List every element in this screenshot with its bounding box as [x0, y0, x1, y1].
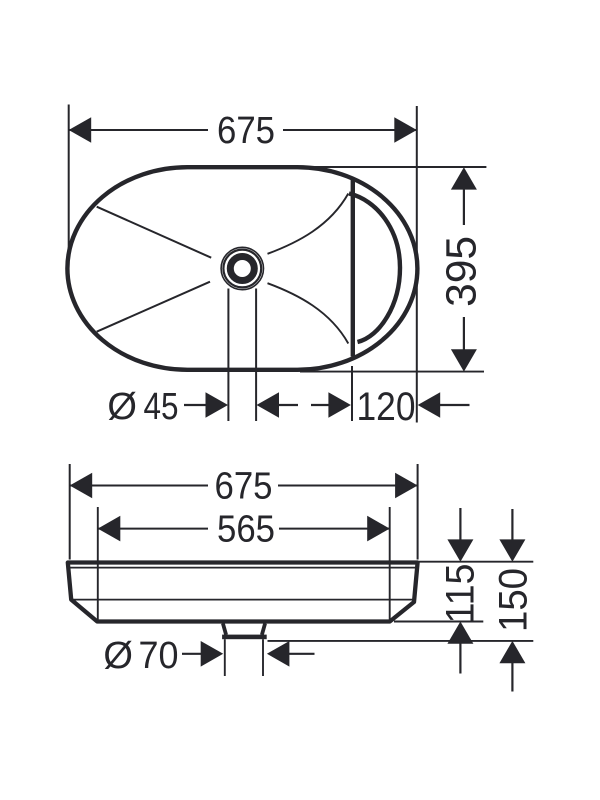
elevation: dimension line 565	[98, 528, 208, 530]
divider extension to dim area	[351, 366, 353, 421]
elevation: extension line right (565)	[389, 507, 391, 621]
elevation: extension line right (675)	[417, 464, 419, 560]
395 extension line top	[300, 166, 486, 168]
svg-text:675: 675	[217, 110, 275, 152]
elevation: extension line left (675)	[69, 464, 71, 560]
drain pipe right	[262, 639, 264, 676]
svg-text:675: 675	[215, 466, 273, 508]
waist line	[71, 599, 414, 601]
drain middle circle	[223, 250, 261, 288]
svg-text:150: 150	[491, 568, 535, 632]
label 115 (rotated)	[439, 564, 483, 624]
drain flange left slant	[223, 623, 226, 634]
crease curve lower right	[268, 283, 349, 343]
crease line lower left	[97, 282, 210, 332]
svg-text:Ø: Ø	[107, 386, 137, 428]
basin deck divider line	[351, 179, 355, 357]
svg-text:115: 115	[439, 564, 483, 624]
drain extension line left (d45)	[227, 289, 229, 422]
drain extension line right (d45)	[255, 289, 257, 422]
d45 arrow left (points right)	[184, 404, 207, 406]
120 arrow right (points left)	[418, 392, 441, 418]
drain ring (filled donut)	[230, 257, 254, 281]
label 395 (rotated)	[438, 236, 486, 307]
150 arrow down	[511, 509, 513, 541]
395 arrow up	[451, 167, 477, 189]
drain flange right slant	[262, 623, 265, 634]
drain flange bar	[222, 635, 267, 640]
top view: extension line left (675)	[68, 105, 70, 251]
crease line upper left	[97, 207, 212, 258]
elevation: extension line left (565)	[97, 507, 99, 621]
svg-text:395: 395	[438, 236, 486, 307]
rim extension line right	[419, 561, 533, 563]
svg-text:Ø: Ø	[103, 635, 133, 677]
d45 arrow right (points left)	[257, 392, 280, 418]
top view: arrowhead 675 right	[394, 117, 417, 143]
120 arrow left (points right)	[311, 404, 330, 406]
basin outer outline (stadium)	[67, 167, 417, 370]
drain pipe left	[224, 639, 226, 676]
svg-text:45: 45	[144, 386, 179, 428]
bottom extension line right	[394, 621, 483, 623]
top view: extension line right (675 / 120)	[416, 106, 418, 423]
rim inner edge line	[69, 567, 417, 569]
elevation: arrowhead 565 left	[98, 516, 121, 542]
150 arrow up	[499, 641, 525, 663]
svg-text:120: 120	[357, 385, 416, 429]
top view: dimension line 675	[69, 129, 208, 131]
d70 arrow right (points left)	[267, 641, 290, 667]
elevation: arrowhead 565 right	[367, 516, 390, 542]
d70 arrow left (points right)	[182, 653, 202, 655]
svg-text:565: 565	[217, 509, 275, 551]
inner bowl arc right	[349, 194, 400, 343]
drain outer circle	[221, 247, 263, 289]
label 150 (rotated)	[491, 568, 535, 632]
svg-text:70: 70	[139, 635, 179, 677]
crease curve upper right	[268, 194, 349, 254]
top view: arrowhead 675 left	[69, 117, 92, 143]
elevation: dimension line 675	[70, 485, 208, 487]
395 extension line bottom	[300, 371, 484, 373]
395 arrow down	[463, 317, 465, 351]
115 arrow up	[447, 622, 473, 644]
115 arrow down	[459, 508, 461, 541]
flange extension line right	[268, 640, 534, 642]
elevation: arrowhead 675 left	[70, 473, 93, 499]
basin profile outline	[68, 563, 418, 622]
elevation: arrowhead 675 right	[395, 473, 418, 499]
